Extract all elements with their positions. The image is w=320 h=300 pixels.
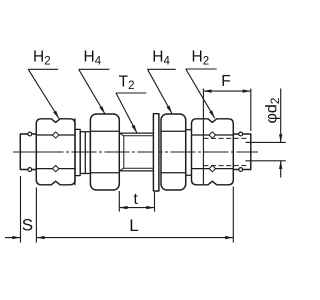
collar C: [186, 119, 192, 185]
right tube: [233, 134, 251, 170]
tube end circles right: [239, 132, 243, 136]
panel: [153, 114, 159, 191]
leader H2 left: [28, 69, 59, 118]
hex B1 (H4 left): [90, 114, 119, 190]
phi-d2 dim: [246, 89, 286, 178]
leader H2 right: [186, 69, 217, 118]
nut N1 flat lines: [36, 135, 75, 169]
thread T2 root lines: [119, 133, 153, 171]
phi-d2 arrows: [279, 134, 282, 142]
arrow leader H2 right: [209, 110, 215, 118]
arrow leader T2: [132, 125, 137, 133]
svg-text:L: L: [129, 216, 138, 235]
leader H4 right: [148, 69, 176, 113]
hex B2 flat lines: [161, 131, 186, 173]
leader H4 left: [79, 69, 110, 114]
svg-text:S: S: [22, 216, 33, 235]
arrow leader H4 right: [167, 106, 173, 114]
F arrows: [203, 89, 211, 92]
arrow leader H4 left: [99, 106, 105, 114]
dimension & leader lines: [5, 69, 286, 243]
S + L dims: [5, 176, 233, 243]
arrow leader H2 left: [53, 111, 59, 119]
hex B1 flat lines: [90, 131, 119, 173]
S arrow (outside pointing right): [12, 236, 20, 239]
t dim: [119, 191, 154, 212]
L right arrow (pointing right): [225, 236, 233, 239]
thread T2: [119, 133, 153, 171]
nut N2 (H2 right): [192, 119, 234, 185]
F dim: [203, 89, 250, 184]
nut N2 flat lines: [192, 135, 234, 169]
L left arrow (pointing left): [36, 236, 44, 239]
svg-text:t: t: [134, 191, 139, 208]
nut N1 diamonds: [52, 132, 58, 172]
svg-text:F: F: [221, 73, 230, 90]
leader T2: [116, 93, 146, 133]
centerline: [13, 151, 258, 153]
collar A: [75, 119, 80, 185]
left tube: [20, 134, 36, 170]
nut N2 diamonds: [209, 132, 215, 172]
t arrows: [119, 206, 127, 209]
collar B: [80, 132, 90, 174]
hidden tube dashes: [203, 138, 247, 165]
tube end circles left: [28, 132, 32, 136]
nut N1 (H2 left): [36, 119, 75, 185]
hex B2 (H4 right): [161, 114, 186, 190]
arrowheads: [12, 89, 282, 239]
